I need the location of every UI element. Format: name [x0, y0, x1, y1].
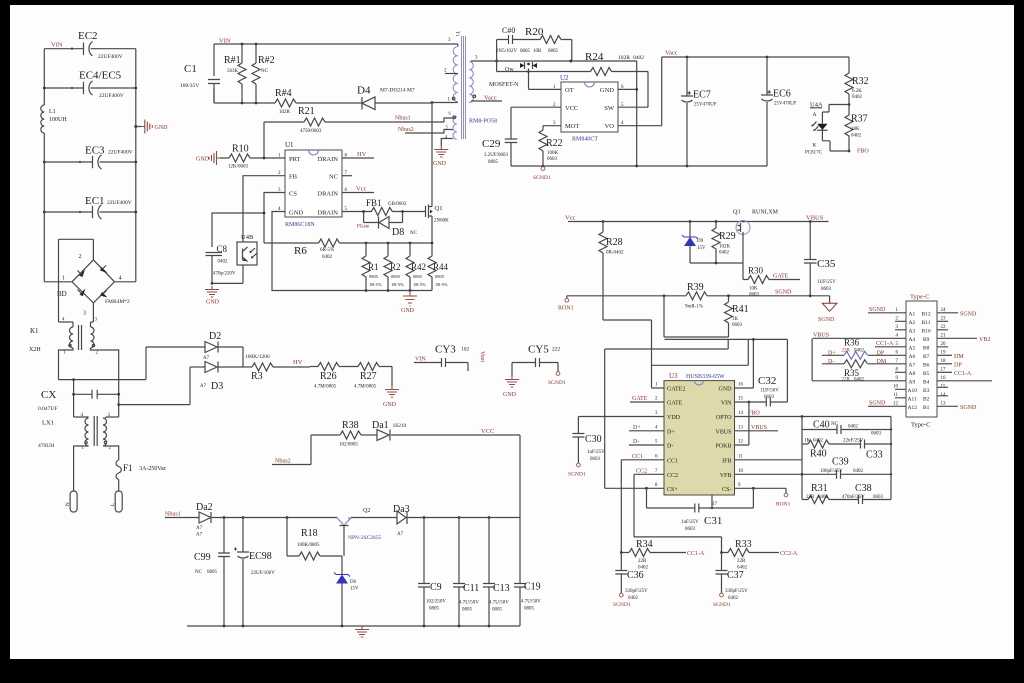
svg-text:SGND1: SGND1: [568, 472, 586, 478]
svg-text:24: 24: [941, 308, 947, 313]
svg-text:Da2: Da2: [196, 502, 213, 513]
wire U1 pin3 CS: [212, 193, 285, 248]
wire sense rail SGND: [567, 295, 830, 297]
svg-text:LX1: LX1: [42, 420, 54, 427]
svg-text:13: 13: [738, 425, 744, 430]
diode D4: [357, 85, 415, 110]
transformer T1: [432, 31, 497, 139]
svg-text:16: 16: [738, 383, 744, 388]
svg-text:21: 21: [941, 333, 947, 338]
svg-text:GND: GND: [719, 387, 733, 393]
resistor R27: [339, 363, 392, 390]
svg-text:B2: B2: [923, 396, 930, 402]
svg-text:NC: NC: [410, 231, 418, 236]
svg-text:1: 1: [62, 276, 65, 282]
svg-text:102/250V: 102/250V: [426, 600, 446, 605]
svg-text:0402: 0402: [853, 469, 864, 474]
svg-text:0603: 0603: [871, 432, 882, 437]
svg-text:FMB4M*2: FMB4M*2: [105, 299, 130, 305]
svg-text:D6: D6: [350, 580, 357, 585]
capacitor C30: [568, 417, 664, 478]
svg-text:0603: 0603: [590, 457, 601, 462]
ground CY5: [505, 376, 519, 387]
svg-text:X2H: X2H: [29, 347, 41, 353]
svg-text:B4: B4: [923, 379, 930, 385]
svg-text:DRAIN: DRAIN: [317, 210, 338, 217]
svg-text:102/0805: 102/0805: [339, 443, 358, 448]
ground GND right rail: [134, 120, 168, 134]
svg-text:SS210: SS210: [393, 424, 407, 429]
wire U1 pin2 FB to opto: [243, 176, 285, 242]
svg-text:0805: 0805: [524, 607, 535, 612]
AC plug prong L: [111, 491, 122, 512]
svg-text:330pF/25V: 330pF/25V: [625, 589, 648, 594]
svg-text:RON1: RON1: [776, 502, 791, 508]
svg-text:0R-0402: 0R-0402: [606, 251, 624, 256]
svg-text:FB1: FB1: [366, 198, 382, 208]
zener D9: [682, 222, 706, 264]
svg-text:B10: B10: [922, 328, 931, 334]
svg-text:GND: GND: [206, 300, 220, 306]
IC U3 USB controller: [655, 372, 744, 495]
capacitor EC98: [234, 518, 275, 627]
diode D3: [190, 347, 243, 392]
svg-text:CX: CX: [41, 389, 56, 401]
op-amp U2 sync controller: [553, 74, 624, 143]
resistor R6: [264, 239, 433, 292]
svg-text:DRAIN: DRAIN: [317, 191, 338, 198]
capacitor EC3: [85, 145, 133, 170]
svg-text:A6: A6: [909, 354, 916, 360]
svg-text:22R: 22R: [638, 559, 647, 564]
svg-text:NC: NC: [261, 69, 269, 74]
svg-text:OPTO: OPTO: [716, 415, 732, 421]
svg-text:4750/0603: 4750/0603: [300, 129, 322, 134]
resistor R36: [822, 338, 906, 360]
node Vacc aux output: [471, 100, 502, 102]
resistor R33: [720, 539, 798, 571]
svg-text:222: 222: [552, 347, 561, 353]
svg-text:R2: R2: [390, 262, 401, 272]
svg-text:R6: R6: [294, 245, 307, 257]
svg-text:HUSB339-65W: HUSB339-65W: [686, 374, 725, 380]
svg-text:RM840CT: RM840CT: [572, 137, 598, 143]
capacitor C37: [713, 553, 748, 609]
resistor R2: [384, 243, 404, 291]
svg-text:22R: 22R: [737, 559, 746, 564]
svg-text:A7: A7: [397, 532, 404, 537]
svg-text:A5: A5: [909, 345, 916, 351]
wire zener mini rail: [690, 262, 743, 264]
diode D8: [357, 212, 418, 239]
svg-text:C31: C31: [704, 515, 722, 527]
resistor R24: [497, 51, 648, 107]
svg-text:D3: D3: [211, 381, 223, 392]
resistor R10: [220, 144, 285, 170]
svg-text:SGND1: SGND1: [613, 602, 631, 608]
diode Da3: [351, 504, 520, 537]
svg-text:R44: R44: [433, 262, 449, 272]
svg-text:15: 15: [738, 397, 744, 402]
wire bridge AC/DC connections: [44, 239, 136, 327]
wire Type-C pin13 SGND: [937, 405, 958, 407]
svg-text:R39: R39: [687, 282, 704, 293]
svg-text:GND: GND: [433, 161, 447, 167]
svg-text:0603: 0603: [685, 527, 696, 532]
svg-text:100K/1206: 100K/1206: [245, 354, 270, 360]
svg-text:M7-DO214 M7: M7-DO214 M7: [380, 88, 415, 94]
svg-text:1R-5%: 1R-5%: [391, 282, 404, 287]
wire Type-C pin1 SGND: [868, 312, 906, 314]
svg-text:EC4/EC5: EC4/EC5: [79, 70, 122, 82]
capacitor C32: [735, 375, 788, 407]
svg-text:D9: D9: [697, 239, 704, 244]
svg-text:22UF400V: 22UF400V: [108, 150, 133, 156]
svg-text:B1: B1: [923, 405, 930, 411]
svg-text:2N60K: 2N60K: [434, 219, 449, 224]
svg-text:EC7: EC7: [693, 90, 711, 101]
svg-text:L: L: [111, 503, 116, 506]
svg-text:R#4: R#4: [275, 88, 292, 99]
svg-text:R10: R10: [232, 144, 249, 155]
svg-text:SGND: SGND: [869, 400, 886, 406]
svg-text:R37: R37: [851, 114, 868, 125]
svg-text:0402: 0402: [854, 377, 865, 382]
wire Type-C pin16 long: [937, 380, 992, 382]
svg-text:SGND1: SGND1: [533, 175, 551, 181]
resistor R26: [310, 363, 339, 390]
svg-text:4.7M/0805: 4.7M/0805: [314, 385, 337, 390]
svg-text:GND: GND: [155, 125, 169, 131]
svg-text:A9: A9: [909, 379, 916, 385]
svg-text:R40: R40: [810, 449, 827, 460]
svg-text:25V470UF: 25V470UF: [774, 102, 797, 107]
svg-text:563K: 563K: [227, 69, 239, 74]
svg-text:U3: U3: [669, 372, 678, 380]
svg-text:B12: B12: [922, 311, 931, 317]
wire IFB pin11: [735, 417, 803, 500]
svg-text:CC1-A: CC1-A: [876, 341, 894, 347]
svg-text:A3: A3: [909, 328, 916, 334]
svg-text:VBUS: VBUS: [751, 425, 767, 431]
svg-text:SGND: SGND: [775, 290, 792, 296]
svg-text:9mR-1%: 9mR-1%: [685, 305, 703, 310]
svg-text:B6: B6: [923, 362, 930, 368]
svg-text:1uF/25V: 1uF/25V: [587, 450, 605, 455]
svg-text:A1: A1: [909, 311, 916, 317]
resistor R#4: [275, 88, 296, 115]
wire Type-C pins 23,22,20,15,14 stubs: [937, 321, 948, 396]
svg-text:R34: R34: [636, 539, 653, 550]
svg-text:0603: 0603: [764, 395, 775, 400]
svg-text:A7: A7: [909, 362, 916, 368]
wire top-left input ladder rails: [44, 49, 136, 282]
svg-text:VIN: VIN: [415, 357, 426, 363]
svg-text:VBUS: VBUS: [813, 332, 829, 338]
ground R6 rail: [403, 292, 417, 306]
svg-text:11: 11: [738, 454, 743, 459]
svg-text:22: 22: [941, 325, 947, 330]
svg-text:12K/0603: 12K/0603: [228, 165, 249, 170]
wire K1 to filter: [59, 348, 147, 417]
capacitor C36: [613, 553, 648, 609]
wire secondary ground rail: [511, 165, 767, 167]
svg-text:14: 14: [738, 411, 744, 416]
svg-text:20: 20: [941, 342, 947, 347]
svg-text:0402: 0402: [848, 425, 859, 430]
svg-text:PGate: PGate: [357, 225, 370, 230]
svg-text:GND: GND: [196, 157, 210, 163]
wire U1 pin4 GND: [272, 212, 432, 291]
capacitor C8: [206, 244, 236, 283]
capacitor CY5: [512, 344, 566, 387]
transistor Q2: [337, 508, 382, 556]
transistor Q1: [423, 103, 449, 244]
svg-text:A11: A11: [908, 396, 918, 402]
svg-text:VCC: VCC: [565, 105, 578, 112]
svg-text:100K: 100K: [547, 151, 559, 156]
svg-text:C99: C99: [194, 552, 211, 563]
svg-text:POKB: POKB: [715, 444, 731, 450]
svg-text:C19: C19: [524, 582, 541, 593]
svg-text:470nF/25V: 470nF/25V: [842, 495, 865, 500]
svg-text:Nbus2: Nbus2: [275, 459, 291, 465]
svg-text:Nbus1: Nbus1: [395, 116, 411, 122]
wire Type-C pin17 CC1-A: [937, 371, 952, 373]
svg-text:Vcc: Vcc: [356, 186, 367, 193]
svg-text:0805: 0805: [413, 274, 423, 279]
wire aux ground rail: [187, 625, 520, 627]
wire OPTO FBO row: [735, 416, 892, 418]
svg-text:N: N: [66, 502, 71, 506]
svg-text:0805: 0805: [391, 274, 401, 279]
wire R21 row to aux pin6: [264, 118, 453, 122]
svg-text:16: 16: [941, 376, 947, 381]
svg-text:CC1: CC1: [632, 454, 643, 460]
svg-text:C35: C35: [817, 258, 836, 270]
svg-text:VBUS: VBUS: [715, 429, 731, 435]
svg-text:D8: D8: [392, 227, 404, 238]
svg-text:0805: 0805: [492, 608, 503, 613]
svg-text:C#0: C#0: [502, 26, 515, 35]
svg-text:PRT: PRT: [289, 156, 301, 163]
wire row EC4/EC5: [44, 87, 136, 89]
wire ladder right vertical: [890, 417, 892, 500]
svg-text:22R: 22R: [842, 349, 851, 354]
svg-text:2: 2: [79, 254, 82, 260]
capacitor C9: [418, 518, 446, 627]
wire to D3: [119, 367, 190, 405]
svg-text:C30: C30: [585, 434, 602, 445]
svg-text:VDD: VDD: [667, 415, 681, 421]
svg-text:EC1: EC1: [85, 195, 105, 207]
svg-text:Q2: Q2: [363, 508, 370, 514]
fuse F1: [116, 460, 167, 491]
svg-text:FB: FB: [289, 174, 298, 181]
svg-text:C8: C8: [217, 244, 228, 254]
svg-text:23: 23: [941, 316, 947, 321]
svg-text:15V: 15V: [697, 246, 706, 251]
svg-text:D-: D-: [633, 439, 639, 445]
wire CS+ pin8: [605, 487, 664, 489]
node GATE pin2: [630, 401, 664, 403]
svg-text:102R: 102R: [618, 55, 630, 61]
capacitor EC4/EC5: [79, 70, 124, 100]
wire VFB pin10 + capacitor C39: [735, 457, 892, 479]
svg-text:0.047UF: 0.047UF: [38, 406, 57, 412]
capacitor C40: [802, 420, 891, 435]
resistor R22: [533, 126, 563, 181]
svg-text:R31: R31: [811, 483, 828, 494]
svg-text:2.2UF/0603: 2.2UF/0603: [484, 153, 509, 158]
svg-text:NPN-2SC2655: NPN-2SC2655: [348, 535, 382, 541]
zener D6: [334, 556, 359, 626]
svg-text:Nbus1: Nbus1: [165, 512, 181, 518]
resistor R41: [664, 296, 749, 337]
diode Da2: [165, 502, 337, 538]
svg-text:0402: 0402: [719, 251, 730, 256]
svg-text:22UF400V: 22UF400V: [107, 200, 132, 206]
resistor R#2: [252, 44, 275, 103]
svg-text:C9: C9: [430, 582, 442, 593]
resistor R20 snubber: [497, 26, 572, 72]
svg-text:0603: 0603: [821, 287, 832, 292]
svg-text:0603: 0603: [873, 495, 884, 500]
inductor L1: [41, 105, 68, 133]
svg-text:R38: R38: [342, 420, 359, 431]
common-mode choke K1: [29, 325, 99, 356]
svg-text:11: 11: [893, 393, 898, 398]
svg-text:1R-5%: 1R-5%: [413, 282, 426, 287]
svg-text:A7: A7: [200, 384, 207, 389]
op-amp U1 controller: [278, 141, 348, 228]
svg-text:C13: C13: [493, 583, 510, 594]
wire Type-C pins 8,10,11 stubs: [895, 372, 906, 398]
capacitor C99: [194, 518, 230, 627]
svg-text:PC817C: PC817C: [805, 151, 823, 156]
svg-text:0402: 0402: [813, 439, 824, 444]
svg-text:A8: A8: [909, 371, 916, 377]
svg-text:D-: D-: [667, 444, 673, 450]
svg-text:C39: C39: [832, 457, 849, 468]
capacitor C1: [180, 63, 220, 103]
node VBUS pin13: [735, 430, 779, 432]
svg-text:VB2: VB2: [979, 337, 990, 343]
svg-text:22UF400V: 22UF400V: [99, 93, 124, 99]
diode D2: [146, 331, 243, 380]
svg-text:13: 13: [941, 401, 947, 406]
svg-text:10: 10: [893, 384, 899, 389]
svg-text:VCC: VCC: [481, 428, 494, 435]
svg-text:R22: R22: [546, 138, 563, 149]
resistor R42: [406, 243, 426, 291]
capacitor EC7: [681, 57, 717, 166]
svg-text:0603: 0603: [547, 157, 558, 162]
node RON1 CS-: [753, 488, 786, 493]
svg-text:SGND: SGND: [818, 317, 835, 323]
svg-text:102R: 102R: [279, 110, 291, 115]
svg-text:MOSFET-N: MOSFET-N: [489, 82, 519, 88]
ground C8: [212, 282, 243, 284]
svg-text:R1: R1: [368, 262, 379, 272]
resistor R31 + capacitor C38: [802, 483, 891, 504]
svg-text:U1: U1: [285, 141, 294, 149]
resistor R44: [428, 243, 449, 291]
wire Type-C pin18 DP: [937, 363, 952, 365]
svg-text:10: 10: [738, 469, 744, 474]
svg-text:R20: R20: [525, 26, 544, 38]
svg-text:NC: NC: [195, 570, 203, 575]
svg-text:0402: 0402: [322, 255, 333, 260]
svg-text:1K: 1K: [804, 439, 811, 444]
ground aux rail: [355, 626, 369, 637]
svg-text:R30: R30: [748, 266, 764, 276]
svg-text:0402: 0402: [851, 134, 862, 139]
capacitor CY3: [414, 344, 485, 372]
svg-text:4: 4: [119, 276, 122, 282]
svg-text:0402: 0402: [854, 349, 865, 354]
capacitor C31: [647, 487, 755, 532]
svg-text:R21: R21: [298, 106, 315, 117]
wire U1 pin6 Vcc: [342, 192, 374, 194]
svg-text:Da3: Da3: [393, 504, 410, 515]
resistor R40 + capacitor C33: [802, 432, 891, 461]
svg-text:0402: 0402: [852, 95, 863, 100]
svg-text:0805: 0805: [435, 274, 445, 279]
svg-text:EC98: EC98: [249, 551, 272, 562]
svg-text:0402: 0402: [218, 260, 229, 265]
svg-text:C40: C40: [813, 420, 830, 431]
svg-text:B8: B8: [923, 345, 930, 351]
node RON1: [566, 296, 568, 299]
svg-text:SGND1: SGND1: [713, 602, 731, 608]
svg-text:C32: C32: [758, 375, 776, 387]
svg-text:0402: 0402: [628, 596, 639, 601]
svg-text:C37: C37: [727, 570, 744, 581]
svg-text:4.7U/50V: 4.7U/50V: [489, 601, 509, 606]
svg-text:A12: A12: [908, 405, 918, 411]
svg-text:C29: C29: [482, 138, 501, 150]
wire U1 pin8 HV: [342, 157, 374, 159]
svg-text:D+: D+: [633, 425, 641, 431]
svg-text:22R: 22R: [806, 495, 815, 500]
svg-text:CC1: CC1: [667, 458, 678, 464]
wire U1 pin7: [342, 175, 352, 177]
svg-text:Vacc: Vacc: [484, 95, 497, 102]
resistor R18: [287, 518, 342, 561]
svg-text:B9: B9: [923, 337, 930, 343]
svg-text:A7: A7: [196, 533, 203, 538]
svg-text:A: A: [813, 112, 817, 118]
svg-text:VFB: VFB: [720, 473, 732, 479]
svg-text:HV: HV: [293, 359, 303, 366]
svg-text:B3: B3: [923, 388, 930, 394]
svg-text:25V470UF: 25V470UF: [694, 103, 717, 108]
svg-text:C11: C11: [463, 583, 479, 594]
wire Type-C pin19 DM: [937, 354, 952, 356]
svg-text:B7: B7: [923, 354, 930, 360]
svg-text:A2: A2: [909, 320, 916, 326]
wire primary top rail: [214, 44, 458, 103]
svg-text:GND: GND: [383, 402, 397, 408]
svg-text:B11: B11: [922, 320, 931, 326]
svg-text:DRAIN: DRAIN: [317, 156, 338, 163]
resistor R37: [845, 103, 869, 154]
bridge rectifier BD: [57, 254, 130, 317]
wire aux pin5 stub: [405, 130, 453, 134]
svg-text:1UF/50V: 1UF/50V: [760, 389, 779, 394]
svg-text:17: 17: [941, 367, 947, 372]
